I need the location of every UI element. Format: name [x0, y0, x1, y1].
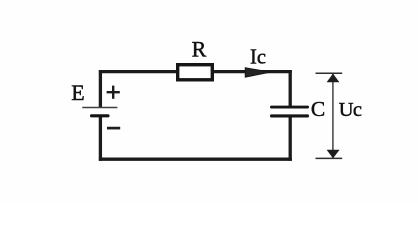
wire left upper segment (top corner down to battery + plate)	[99, 70, 102, 108]
capacitor C top plate	[270, 106, 309, 109]
Uc bottom arrowhead (pointing down)	[327, 150, 340, 159]
wire left lower segment (battery - plate down to bottom corner)	[99, 115, 102, 161]
label Uc	[339, 99, 362, 121]
current arrow Ic (solid triangle on top wire pointing right)	[245, 68, 270, 78]
wire top (left corner to right corner)	[99, 70, 292, 73]
capacitor C bottom plate	[270, 114, 309, 117]
voltage arrow Uc shaft (vertical dimension line)	[332, 74, 334, 158]
battery minus sign	[107, 127, 120, 130]
wire right upper segment (top corner down to capacitor top plate)	[289, 70, 292, 107]
label C	[311, 97, 325, 121]
label R	[192, 36, 207, 61]
svg-text:Uc: Uc	[339, 99, 362, 121]
label E	[71, 80, 84, 105]
Uc bottom tick	[316, 157, 343, 159]
battery E negative plate (short thick bar)	[90, 114, 110, 117]
Uc top tick	[316, 72, 343, 74]
svg-text:R: R	[192, 36, 207, 61]
battery plus sign	[107, 86, 120, 99]
resistor R (rectangle body)	[178, 65, 213, 80]
label Ic	[250, 47, 266, 69]
svg-text:E: E	[71, 80, 84, 105]
Uc top arrowhead (pointing up)	[327, 74, 340, 83]
wire right lower segment (capacitor bottom plate down to bottom corner)	[289, 115, 292, 161]
svg-text:C: C	[311, 97, 325, 121]
wire bottom	[99, 158, 292, 161]
svg-text:Ic: Ic	[250, 47, 266, 69]
battery E positive plate (long thin line)	[82, 107, 117, 109]
